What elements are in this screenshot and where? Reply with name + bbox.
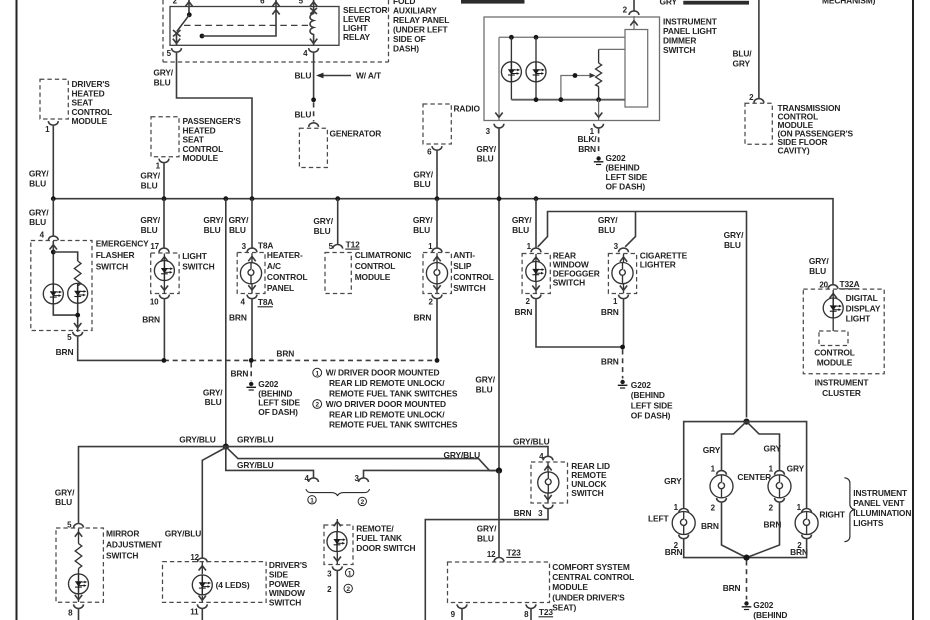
relay coil — [310, 7, 317, 46]
light switch LED — [154, 254, 174, 294]
svg-text:BLU: BLU — [512, 225, 529, 235]
label GRY/BLU climatronic wire — [313, 216, 333, 236]
svg-text:DASH): DASH) — [393, 43, 419, 53]
wire GRY/BLU x499 bus to lower node — [498, 199, 500, 471]
wire anti-slip to BRN bus — [436, 299, 438, 360]
svg-text:SWITCH: SWITCH — [182, 261, 214, 271]
svg-text:MECHANISM): MECHANISM) — [822, 0, 876, 6]
svg-text:GRY: GRY — [664, 476, 682, 486]
svg-text:T32A: T32A — [840, 279, 860, 289]
window pin 12 connector — [190, 553, 207, 562]
svg-text:BLU: BLU — [29, 217, 46, 227]
relay pin 5 connector — [167, 48, 182, 58]
heater panel bulb — [240, 253, 261, 293]
anti-slip pin 2 connector — [428, 295, 441, 307]
wire light switch to BRN bus — [163, 299, 165, 360]
wire driver's seat to bus — [52, 126, 54, 199]
center-right bulb pin2 connector — [769, 498, 785, 512]
label instrument panel vent illumination lights — [853, 488, 911, 528]
svg-text:FUEL TANK: FUEL TANK — [356, 533, 402, 543]
bus node anti-slip feed — [435, 196, 440, 201]
svg-text:INSTRUMENT: INSTRUMENT — [815, 378, 870, 388]
transmission control module box — [745, 103, 853, 156]
svg-text:MODULE: MODULE — [817, 358, 853, 368]
svg-text:1: 1 — [711, 464, 716, 473]
svg-text:SWITCH: SWITCH — [269, 598, 301, 608]
svg-text:20: 20 — [819, 280, 828, 289]
BRN bus node heater/ground — [249, 358, 254, 363]
connector pin 4 option1 — [304, 474, 318, 483]
relay K1 dashed enclosure (fold auxiliary relay panel) — [163, 0, 389, 62]
wire LED to control module — [832, 318, 834, 331]
bus y446 mirror to rear lid unlock — [79, 447, 549, 523]
BRN bus node anti-slip — [435, 358, 440, 363]
svg-text:(UNDER DRIVER'S: (UNDER DRIVER'S — [552, 592, 625, 602]
svg-text:BLU: BLU — [314, 226, 331, 236]
dimmer wiper arm — [561, 73, 596, 100]
svg-text:6: 6 — [427, 148, 432, 157]
remote fuel tank LED — [327, 519, 347, 564]
wire bus to heater panel — [251, 199, 253, 248]
label selector lever light relay — [343, 5, 388, 42]
svg-text:GRY/: GRY/ — [476, 144, 496, 154]
emergency flasher internal feed — [50, 241, 78, 284]
comfort pin 8 connector with T23 — [524, 604, 553, 619]
label GRY/BLU passenger's seat wire — [140, 171, 160, 191]
svg-text:12: 12 — [487, 550, 496, 559]
svg-text:(BEHIND: (BEHIND — [631, 390, 665, 400]
instrument panel light dimmer switch U4 box — [484, 17, 660, 121]
center-left bulb pin2 connector — [711, 498, 727, 512]
svg-text:BLU: BLU — [477, 154, 494, 164]
svg-text:ADJUSTMENT: ADJUSTMENT — [106, 540, 163, 550]
svg-text:2: 2 — [315, 402, 319, 409]
ground G202 vent — [742, 601, 752, 609]
defogger LED — [526, 254, 546, 293]
instrument cluster box — [803, 289, 884, 398]
svg-text:G202: G202 — [631, 380, 651, 390]
vent inner loop top right — [747, 422, 780, 470]
svg-text:GRY/BLU: GRY/BLU — [513, 437, 550, 447]
svg-text:T8A: T8A — [258, 241, 274, 251]
vent outer loop bottom right — [747, 539, 807, 558]
dimmer LED D2 — [526, 37, 546, 99]
svg-text:CENTER: CENTER — [737, 472, 771, 482]
ground G202 dimmer — [594, 156, 604, 164]
svg-text:GENERATOR: GENERATOR — [330, 129, 382, 139]
anti-slip pin 1 connector — [428, 242, 442, 252]
right page border — [912, 0, 914, 620]
relay mechanical link dashed — [184, 24, 308, 26]
svg-text:2: 2 — [428, 298, 433, 307]
center-left bulb pin1 connector — [711, 464, 727, 474]
svg-text:T23: T23 — [507, 548, 522, 558]
label GRY/BLU comfort drop — [477, 524, 497, 544]
svg-text:5: 5 — [167, 49, 172, 58]
dimmer LED D1 — [501, 37, 521, 99]
svg-text:6: 6 — [260, 0, 265, 5]
branch to cigarette lighter — [625, 212, 635, 247]
svg-text:PANEL: PANEL — [267, 283, 294, 293]
cut-off box bar top A — [461, 0, 525, 4]
label GRY/BLU relay pin5 wire — [153, 68, 173, 88]
svg-text:BRN: BRN — [601, 357, 619, 367]
option marker 1 at fuel switch — [345, 569, 353, 578]
svg-text:GRY/: GRY/ — [203, 387, 223, 397]
svg-text:2: 2 — [173, 0, 178, 5]
svg-text:SWITCH: SWITCH — [663, 45, 695, 55]
svg-text:GRY/: GRY/ — [140, 215, 160, 225]
cigarette lighter box — [608, 251, 687, 294]
svg-text:SLIP: SLIP — [453, 261, 472, 271]
svg-text:BLU: BLU — [598, 225, 615, 235]
svg-text:GRY/: GRY/ — [598, 215, 618, 225]
vent inner loop bottom left — [722, 503, 747, 558]
label GRY/BLU cigarette wire — [598, 215, 618, 235]
svg-text:CONTROL: CONTROL — [355, 261, 396, 271]
emergency flasher pin 4 connector — [40, 230, 59, 240]
label GRY/BLU anti-slip wire — [413, 215, 433, 235]
wire radio to bus — [436, 151, 438, 199]
remote fuel tank door switch box — [324, 524, 416, 565]
svg-text:CAVITY): CAVITY) — [778, 146, 810, 156]
svg-text:GRY: GRY — [660, 0, 678, 6]
svg-text:LIGHT: LIGHT — [846, 314, 872, 324]
left vent bulb — [672, 512, 695, 535]
passenger's heated seat control module U3 — [151, 116, 241, 163]
center-left vent bulb — [710, 475, 733, 498]
svg-text:BLU: BLU — [229, 225, 246, 235]
svg-text:LIGHT: LIGHT — [182, 251, 208, 261]
svg-text:MIRROR: MIRROR — [106, 529, 139, 539]
generator connector — [309, 123, 319, 127]
svg-text:REMOTE FUEL TANK SWITCHES: REMOTE FUEL TANK SWITCHES — [329, 388, 458, 398]
node bottom rail pot — [596, 97, 601, 102]
left page border — [16, 0, 18, 620]
svg-text:BRN: BRN — [142, 314, 160, 324]
brace instrument panel vent lights — [844, 478, 855, 542]
wire dimmer pin3 to bus — [498, 129, 500, 199]
svg-text:GRY/: GRY/ — [313, 216, 333, 226]
svg-text:INSTRUMENT: INSTRUMENT — [663, 17, 718, 27]
svg-text:SWITCH: SWITCH — [453, 283, 485, 293]
rear lid unlock bulb — [538, 463, 559, 503]
dimmer pin 1 internal drop — [595, 100, 602, 121]
rear lid remote unlock pin 4 connector — [539, 452, 553, 461]
svg-text:MODULE: MODULE — [552, 582, 588, 592]
W/ A/T arrow — [316, 70, 382, 80]
svg-text:SEAT): SEAT) — [552, 603, 576, 613]
wire bus to defogger — [535, 199, 537, 248]
svg-text:DISPLAY: DISPLAY — [846, 303, 881, 313]
svg-text:SWITCH: SWITCH — [106, 551, 138, 561]
svg-text:1: 1 — [315, 370, 319, 377]
rear window defogger switch box — [522, 251, 600, 294]
svg-text:BLU: BLU — [205, 397, 222, 407]
svg-text:GRY/: GRY/ — [413, 215, 433, 225]
climatronic control module box — [325, 250, 411, 294]
bus node climatronic feed — [335, 196, 340, 201]
cut-off box bar top B — [683, 1, 749, 5]
node on top rail LED1 — [509, 35, 514, 40]
svg-text:2: 2 — [749, 93, 754, 102]
mirror pin 8 connector — [68, 604, 83, 617]
svg-text:4: 4 — [240, 298, 245, 307]
window pin 11 connector — [190, 604, 207, 616]
svg-text:GRY/BLU: GRY/BLU — [165, 529, 202, 539]
svg-text:BRN: BRN — [790, 547, 808, 557]
svg-text:REMOTE FUEL TANK SWITCHES: REMOTE FUEL TANK SWITCHES — [329, 420, 458, 430]
svg-text:2: 2 — [361, 499, 365, 506]
junction node BRN defogger+cigarette — [620, 345, 625, 350]
junction node on BLU wire — [311, 97, 316, 102]
node bottom rail LED2 — [534, 97, 539, 102]
svg-text:5: 5 — [67, 333, 72, 342]
dimmer pin 3 internal drop — [495, 37, 502, 120]
rear lid remote unlock switch box — [531, 461, 610, 503]
svg-text:CENTRAL CONTROL: CENTRAL CONTROL — [552, 572, 634, 582]
svg-text:GRY/: GRY/ — [29, 169, 49, 179]
svg-text:AUXILIARY: AUXILIARY — [393, 5, 437, 15]
option marker 2 at fuel switch — [344, 584, 352, 593]
svg-text:LEFT: LEFT — [648, 513, 669, 523]
svg-text:BRN: BRN — [231, 368, 249, 378]
svg-text:SWITCH: SWITCH — [571, 488, 603, 498]
center-right vent bulb — [768, 475, 791, 498]
BRN bus node light switch — [162, 358, 167, 363]
svg-text:17: 17 — [150, 242, 159, 251]
label G202 behind left side of dash right — [631, 380, 673, 421]
svg-text:OF DASH): OF DASH) — [631, 411, 671, 421]
svg-text:GRY/: GRY/ — [475, 375, 495, 385]
relay pin 1 top stub — [299, 0, 318, 7]
svg-text:PANEL LIGHT: PANEL LIGHT — [663, 26, 718, 36]
svg-text:BLU/: BLU/ — [732, 49, 752, 59]
wire rear lid BRN to bottom — [425, 509, 548, 620]
svg-text:3: 3 — [486, 127, 491, 136]
vent inner loop top left — [722, 422, 747, 470]
dimmer pin 2 connector top — [623, 0, 639, 15]
svg-text:MODULE: MODULE — [355, 272, 391, 282]
emergency flasher output join — [53, 303, 81, 332]
svg-text:1: 1 — [156, 162, 161, 171]
generator module box — [299, 128, 381, 167]
svg-text:1: 1 — [45, 125, 50, 134]
defogger pin 2 connector — [525, 295, 540, 306]
mirror adjustment switch box — [56, 528, 163, 602]
rear lid unlock pin 3 connector — [514, 505, 553, 518]
svg-text:5: 5 — [299, 0, 304, 5]
wire comfort pin9 to edge — [461, 609, 463, 620]
defogger pin 1 connector — [527, 242, 541, 252]
svg-text:3: 3 — [327, 569, 332, 578]
right vent bulb pin1 connector — [797, 503, 812, 513]
svg-text:DIGITAL: DIGITAL — [846, 293, 878, 303]
vent outer loop bottom left — [684, 539, 747, 558]
label GRY/BLU defogger wire — [512, 215, 532, 235]
wire heater to BRN bus — [251, 299, 253, 360]
svg-text:4: 4 — [40, 230, 45, 239]
svg-text:DIMMER: DIMMER — [663, 36, 696, 46]
svg-text:LEFT SIDE: LEFT SIDE — [606, 172, 648, 182]
label fold auxiliary relay panel — [393, 0, 449, 53]
transmission pin 2 connector — [749, 93, 764, 103]
svg-text:(BEHIND: (BEHIND — [606, 163, 640, 173]
svg-text:HEATER-: HEATER- — [267, 250, 303, 260]
svg-text:RADIO: RADIO — [454, 104, 481, 114]
svg-text:BRN: BRN — [514, 508, 532, 518]
svg-text:BLU: BLU — [204, 225, 221, 235]
svg-text:BRN: BRN — [515, 307, 533, 317]
svg-text:CLIMATRONIC: CLIMATRONIC — [355, 250, 412, 260]
svg-text:LEFT SIDE: LEFT SIDE — [631, 400, 673, 410]
svg-text:REAR LID REMOTE UNLOCK/: REAR LID REMOTE UNLOCK/ — [329, 378, 445, 388]
svg-text:BRN: BRN — [578, 144, 596, 154]
svg-text:(BEHIND: (BEHIND — [753, 610, 787, 620]
label GRY/BLU driver's seat wire — [29, 169, 49, 189]
svg-text:GRY: GRY — [703, 445, 721, 455]
climatronic pin 5 connector with T12 — [329, 239, 360, 251]
svg-text:MODULE: MODULE — [72, 116, 108, 126]
bus row3 from node to pin3 — [364, 470, 500, 477]
label GRY/BLU mirror drop — [55, 487, 75, 507]
connector pin 3 option2 — [354, 474, 368, 483]
wire window pin11 to edge — [201, 609, 203, 620]
svg-text:2: 2 — [769, 503, 774, 512]
svg-text:GRY/: GRY/ — [229, 215, 249, 225]
anti-slip control switch box — [423, 250, 494, 294]
BRN bus dashed segment 2 — [251, 359, 437, 361]
dimmer internal rheostat block — [625, 30, 648, 108]
svg-text:SWITCH: SWITCH — [96, 262, 128, 272]
svg-text:T8A: T8A — [258, 297, 274, 307]
left vent bulb pin1 connector — [674, 503, 689, 513]
relay contact feed wire with node — [200, 7, 280, 39]
svg-text:1: 1 — [797, 503, 802, 512]
svg-text:8: 8 — [68, 609, 73, 618]
svg-text:BLU: BLU — [141, 180, 158, 190]
svg-text:OF DASH): OF DASH) — [258, 407, 298, 417]
svg-text:3: 3 — [242, 242, 247, 251]
branch bus y211 from defogger — [538, 212, 747, 418]
emergency flasher pin 5 connector — [67, 332, 82, 342]
svg-text:A/C: A/C — [267, 261, 281, 271]
mirror internal resistor — [75, 529, 82, 574]
ground G202 right — [618, 380, 628, 388]
dashed wire to ground G202 right — [622, 350, 624, 379]
cigarette lighter bulb — [612, 254, 633, 293]
wire comfort pin8 to edge — [530, 609, 532, 620]
svg-text:COMFORT SYSTEM: COMFORT SYSTEM — [552, 562, 630, 572]
svg-text:BRN: BRN — [601, 307, 619, 317]
label BLK/BRN — [577, 134, 597, 154]
svg-text:BLU: BLU — [724, 240, 741, 250]
label GRY/BLU vent feeder — [724, 230, 744, 250]
svg-text:W/ A/T: W/ A/T — [356, 70, 382, 80]
svg-text:2: 2 — [711, 503, 716, 512]
svg-text:BLU: BLU — [476, 384, 493, 394]
svg-text:LIGHTS: LIGHTS — [853, 518, 884, 528]
radio module — [423, 104, 480, 145]
dimmer bottom rail — [511, 99, 625, 101]
svg-text:BRN: BRN — [276, 348, 294, 358]
emergency flasher switch S1 box — [31, 239, 149, 331]
svg-text:OF DASH): OF DASH) — [606, 182, 646, 192]
relay pin 4 connector — [303, 48, 318, 58]
wire relay pin4 BLU — [313, 53, 315, 100]
label GRY/BLU dimmer pin3 wire — [476, 144, 496, 164]
digital display light LED — [823, 290, 881, 324]
svg-text:GRY/: GRY/ — [809, 256, 829, 266]
svg-text:BLU: BLU — [477, 533, 494, 543]
svg-text:INSTRUMENT: INSTRUMENT — [853, 488, 908, 498]
svg-text:3: 3 — [614, 242, 619, 251]
vent inner loop bottom right — [747, 503, 780, 558]
dashed wire dimmer pin1 to ground — [598, 129, 600, 156]
svg-text:9: 9 — [451, 610, 456, 619]
label GRY/BLU long feeder lower — [203, 387, 223, 407]
svg-text:1: 1 — [769, 464, 774, 473]
cigarette pin 3 connector — [614, 242, 629, 252]
light switch S2 box — [151, 251, 215, 294]
window LED (4 LEDS) — [192, 562, 250, 602]
svg-text:GRY/BLU: GRY/BLU — [444, 450, 481, 460]
emergency flasher resistor — [74, 261, 81, 286]
svg-text:PANEL VENT: PANEL VENT — [853, 498, 905, 508]
emergency flasher LED 2 — [68, 283, 88, 303]
svg-text:11: 11 — [190, 608, 199, 617]
cigarette pin 1 connector — [613, 295, 628, 306]
svg-text:BRN: BRN — [723, 583, 741, 593]
wire passenger's seat to bus — [163, 163, 165, 198]
svg-text:EMERGENCY: EMERGENCY — [96, 239, 149, 249]
note 2 circled — [313, 399, 458, 430]
svg-text:BRN: BRN — [665, 547, 683, 557]
svg-text:GRY/: GRY/ — [29, 207, 49, 217]
svg-text:CONTROL: CONTROL — [267, 272, 308, 282]
svg-text:BRN: BRN — [764, 519, 782, 529]
dimmer pin2 internal wire — [630, 16, 637, 30]
svg-text:1: 1 — [527, 242, 532, 251]
remote fuel tank bottom connector pins 3/2 — [327, 566, 342, 594]
svg-text:BLU: BLU — [55, 497, 72, 507]
svg-text:GRY: GRY — [764, 443, 782, 453]
transmission control module wire BLU/GRY — [758, 0, 760, 98]
svg-text:CLUSTER: CLUSTER — [822, 388, 861, 398]
svg-text:BRN: BRN — [229, 312, 247, 322]
wire mirror pin8 to edge — [78, 609, 80, 620]
heater pin 3 connector with T8A — [242, 241, 274, 253]
svg-text:BLU: BLU — [295, 70, 312, 80]
driver's side power window switch box — [163, 560, 308, 608]
svg-text:ANTI-: ANTI- — [453, 250, 475, 260]
vent outer loop left — [684, 422, 747, 508]
svg-text:GRY/: GRY/ — [724, 230, 744, 240]
node bottom rail wiper — [559, 97, 564, 102]
mirror pin 5 connector — [67, 520, 83, 529]
label GRY/BLU heater wire — [229, 215, 249, 235]
radio pin 6 connector — [427, 146, 442, 157]
bus node driver's seat — [51, 196, 56, 201]
wire flasher pin5 to BRN bus — [78, 337, 164, 361]
dashed wire vent to ground — [746, 561, 748, 600]
label instrument panel light dimmer switch — [663, 17, 718, 56]
dimmer pin 3 connector — [486, 124, 504, 136]
right vent bulb pin2 connector — [797, 535, 811, 550]
bus node defogger feed — [534, 196, 539, 201]
svg-text:BLK/: BLK/ — [577, 134, 597, 144]
anti-slip bulb — [426, 253, 447, 293]
